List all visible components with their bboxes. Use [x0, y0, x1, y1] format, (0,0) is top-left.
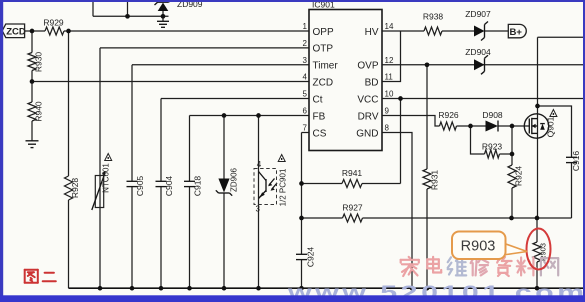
svg-text:C924: C924: [306, 247, 316, 268]
svg-text:R926: R926: [438, 110, 459, 120]
svg-text:R927: R927: [342, 203, 363, 213]
svg-text:Ct: Ct: [313, 94, 323, 105]
svg-text:C904: C904: [164, 176, 174, 197]
svg-text:D908: D908: [482, 110, 503, 120]
svg-text:DRV: DRV: [358, 111, 379, 122]
svg-text:R928: R928: [70, 178, 80, 199]
svg-text:2: 2: [303, 39, 308, 48]
svg-text:OPP: OPP: [313, 27, 334, 38]
svg-text:11: 11: [385, 73, 394, 82]
svg-text:C905: C905: [135, 176, 145, 197]
svg-text:ZCD: ZCD: [6, 27, 26, 38]
svg-text:R924: R924: [514, 166, 524, 187]
svg-text:4: 4: [303, 73, 308, 82]
svg-text:ZD904: ZD904: [465, 47, 491, 57]
svg-text:8: 8: [385, 124, 390, 133]
svg-text:R940: R940: [34, 101, 44, 122]
svg-text:C916: C916: [571, 151, 581, 172]
svg-text:3: 3: [256, 205, 261, 214]
svg-text:1/2 PC901: 1/2 PC901: [279, 168, 288, 206]
svg-text:3: 3: [303, 56, 308, 65]
svg-text:14: 14: [385, 22, 394, 31]
svg-text:CS: CS: [313, 128, 327, 139]
svg-text:7: 7: [303, 124, 308, 133]
svg-text:VCC: VCC: [357, 94, 378, 105]
svg-text:C918: C918: [193, 176, 203, 197]
svg-text:R923: R923: [482, 142, 503, 152]
svg-text:R941: R941: [342, 168, 363, 178]
svg-text:Timer: Timer: [313, 61, 339, 72]
svg-text:OTP: OTP: [313, 44, 334, 55]
svg-text:R929: R929: [43, 18, 64, 28]
svg-text:HV: HV: [365, 27, 379, 38]
svg-text:GND: GND: [356, 128, 378, 139]
svg-text:12: 12: [385, 56, 394, 65]
svg-text:B+: B+: [510, 27, 523, 38]
svg-text:ZD907: ZD907: [465, 9, 491, 19]
svg-text:NTC601: NTC601: [102, 163, 111, 193]
svg-text:R938: R938: [423, 12, 444, 22]
svg-text:FB: FB: [313, 111, 326, 122]
svg-text:4: 4: [257, 160, 262, 169]
svg-text:Q901: Q901: [546, 116, 556, 137]
svg-text:5: 5: [303, 90, 308, 99]
svg-text:ZCD: ZCD: [313, 77, 334, 88]
svg-text:R931: R931: [430, 170, 440, 191]
svg-text:6: 6: [303, 107, 308, 116]
svg-text:ZD906: ZD906: [230, 167, 239, 192]
svg-text:R903: R903: [461, 239, 496, 255]
svg-text:9: 9: [385, 107, 390, 116]
svg-text:1: 1: [303, 22, 308, 31]
svg-text:BD: BD: [365, 77, 379, 88]
svg-text:OVP: OVP: [357, 61, 378, 72]
svg-text:R930: R930: [34, 52, 44, 73]
svg-text:10: 10: [385, 90, 394, 99]
